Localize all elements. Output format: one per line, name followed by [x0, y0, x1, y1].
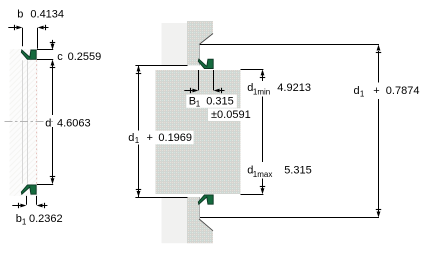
- dimension b1 extension line left: [26, 196, 28, 205]
- svg-text:+: +: [147, 132, 153, 144]
- phantom line: seal arm edge extended: [27, 60, 29, 183]
- dimension d1+0.1969 extension line bottom: [135, 197, 187, 199]
- dimension d1+0.1969 arrow top: [137, 65, 141, 71]
- dimension d1min extension line: [241, 69, 264, 71]
- dimension d1+0.7874 label: [350, 83, 420, 97]
- svg-text:1: 1: [196, 100, 201, 109]
- hatched strip left of upper counterface wall: [162, 23, 188, 65]
- svg-text:0.1969: 0.1969: [158, 132, 192, 144]
- dimension d1+0.1969 arrow bottom: [137, 191, 141, 197]
- dimension d1+0.7874 extension line top: [200, 44, 379, 46]
- dimension d1+0.7874 line: [378, 51, 380, 83]
- lower counterface wall (gray, chamfered): [187, 197, 213, 243]
- dimension B1 extension line right: [213, 70, 215, 90]
- shaft / hub block (gray, right figure): [156, 70, 241, 194]
- dimension d1+0.1969 label box: [125, 131, 194, 144]
- svg-text:0.2362: 0.2362: [29, 213, 63, 225]
- upper counterface wall (gray, chamfered): [187, 21, 213, 65]
- svg-text:±0.0591: ±0.0591: [211, 109, 251, 121]
- svg-text:1: 1: [135, 136, 140, 145]
- svg-text:+: +: [373, 85, 379, 97]
- V-ring seal cross-section, left figure bottom (mirrored): [21, 185, 36, 194]
- V-ring seal cross-section, left figure top: [21, 50, 36, 59]
- upper wall chamfer edge: [199, 34, 213, 45]
- dimension b arrow left: [16, 26, 22, 30]
- dimension d extension line bottom: [37, 184, 53, 186]
- dimension b extension line right: [37, 28, 39, 49]
- dimension B1 label box: [186, 95, 237, 108]
- svg-text:1: 1: [22, 218, 27, 227]
- svg-text:0.2559: 0.2559: [68, 51, 102, 63]
- dimension d1+0.7874 arrow top: [377, 45, 381, 51]
- svg-text:1max: 1max: [253, 170, 273, 179]
- svg-text:5.315: 5.315: [284, 165, 312, 177]
- hatched section strip (left figure, seal bore): [10, 49, 39, 196]
- svg-text:1: 1: [360, 89, 365, 98]
- svg-text:c: c: [57, 51, 63, 63]
- dimension d1max arrow: [261, 188, 265, 194]
- dimension d1min label: [245, 82, 317, 97]
- hatched strip left of lower counterface wall: [162, 198, 188, 244]
- dimension d1+0.1969 extension line top: [135, 65, 187, 67]
- dimension d1+0.7874 extension line bottom: [200, 217, 379, 219]
- dimension B1 tolerance box: [208, 108, 252, 121]
- dimension d line: [52, 66, 54, 116]
- dimension c arrow bottom / d arrow top: [51, 60, 55, 66]
- dimension B1 arrow left: [192, 89, 198, 93]
- dimension d1max label: [244, 164, 314, 179]
- phantom line: seal lip edge extended: [22, 60, 24, 183]
- lower wall chamfer edge: [199, 219, 213, 231]
- centerline axis (left figure): [5, 121, 54, 123]
- dimension d arrow bottom: [51, 178, 55, 184]
- dimension d1max extension line: [241, 194, 264, 196]
- red contact-surface line: [36, 60, 38, 183]
- dimension c extension line bottom: [37, 59, 53, 61]
- dimension B1 arrow right: [214, 89, 220, 93]
- svg-text:d: d: [354, 85, 360, 97]
- dimension b1 arrow left: [20, 204, 26, 208]
- dimension B1 extension line left: [198, 70, 200, 90]
- dimension b arrow right: [38, 26, 44, 30]
- dimension d1+0.1969 line: [138, 65, 140, 130]
- svg-text:1min: 1min: [253, 88, 270, 97]
- dimension c arrow top: [51, 44, 55, 50]
- svg-text:0.4134: 0.4134: [30, 8, 64, 20]
- svg-text:d: d: [45, 118, 51, 130]
- dimension b1 extension line right: [36, 196, 38, 205]
- V-ring seal installed, right figure bottom (mirrored): [198, 195, 213, 204]
- svg-text:d: d: [128, 132, 134, 144]
- svg-text:4.9213: 4.9213: [277, 82, 311, 94]
- dimension d1min/d1max line: [262, 76, 264, 82]
- dimension c extension line top: [37, 49, 53, 51]
- V-ring seal installed, right figure top: [198, 59, 213, 68]
- dimension d1+0.7874 arrow bottom: [377, 212, 381, 218]
- dimension b extension line left: [22, 28, 24, 47]
- svg-text:b: b: [17, 8, 23, 20]
- svg-text:0.315: 0.315: [206, 95, 234, 107]
- dimension d1min arrow: [261, 69, 265, 75]
- svg-text:4.6063: 4.6063: [57, 118, 91, 130]
- svg-text:0.7874: 0.7874: [386, 85, 420, 97]
- dimension b1 arrow right: [37, 204, 43, 208]
